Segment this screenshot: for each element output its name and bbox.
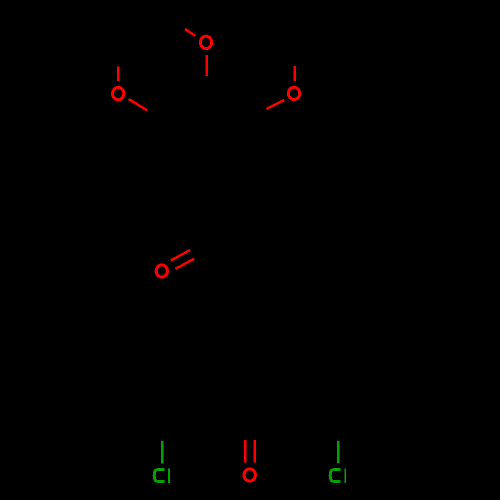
atom label O (middle ketone) (156, 265, 167, 277)
atom label Cl (left chlorine): letter l (168, 468, 170, 483)
bond O-CH3 red half (left methoxy) (117, 67, 120, 81)
chain ring->carbonyl (206, 190, 250, 318)
bond O-CH3 red half (right methoxy) (293, 66, 296, 81)
bond C-Cl green half (left chlorine) (161, 441, 164, 464)
bond O-ring red half (left methoxy) (129, 99, 148, 110)
wire: invisible black skeleton bonds of molecule (118, 14, 382, 441)
O-ring bonds (black halves) (147, 76, 266, 124)
bond C-Cl green half (right chlorine) (337, 441, 340, 463)
C-Cl black halves (162, 419, 338, 441)
bond O-CH3 red half (top methoxy) (185, 29, 195, 36)
atom label O (top methoxy) (200, 36, 211, 48)
top benzene ring C1-C6 (168, 103, 244, 190)
double bond C=O red halves (bottom ketone) (244, 440, 247, 462)
bond O-ring red half (right methoxy) (266, 100, 284, 109)
double bond C=O red halves (middle ketone) (171, 250, 190, 260)
atom label O (bottom ketone) (244, 469, 255, 481)
anthracenone skeleton (206, 318, 294, 418)
atom label Cl (right chlorine): letter C (330, 470, 340, 482)
methyl bonds (black halves) (118, 14, 294, 67)
bond O-ring red half (top methoxy) (205, 55, 208, 76)
carbonyl black halves of C=O (190, 242, 211, 259)
atom label O (right methoxy) (288, 87, 299, 99)
atom label Cl (left chlorine): letter C (154, 470, 164, 482)
atom label O (left methoxy) (113, 87, 124, 99)
atom label Cl (right chlorine): letter l (344, 468, 346, 483)
C9=O black halves (245, 418, 255, 440)
